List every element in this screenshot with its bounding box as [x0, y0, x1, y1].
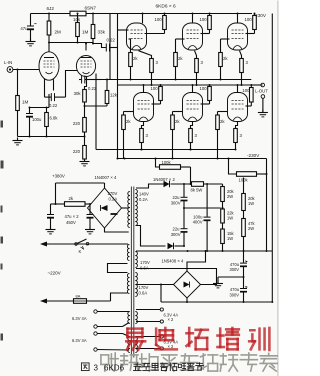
wire heater tap 3	[97, 334, 129, 337]
transformer winding 270V primary-left	[128, 192, 130, 228]
resistor 100 L-OUT	[242, 84, 253, 105]
label ~220V	[48, 271, 61, 276]
wire screen stub tube V1	[118, 29, 129, 31]
transformer winding mains upper	[127, 245, 129, 261]
wire bridge2 ac right	[136, 269, 217, 285]
wire cathode return y149	[96, 149, 236, 151]
svg-text:6SN7: 6SN7	[85, 6, 97, 11]
wire B+ top rail y13	[31, 13, 273, 15]
label 6.3V 4A lower	[164, 340, 179, 350]
wire to L-OUT jack	[251, 84, 261, 86]
wire ac left drop	[160, 285, 162, 303]
dot 220 midpoint	[84, 136, 86, 138]
wire bridge2 minus	[186, 298, 188, 303]
resistor 2M	[47, 14, 61, 43]
resistor 100k upper	[155, 158, 191, 170]
label 6.3V left lower	[72, 338, 87, 343]
wire cathode bus y107	[29, 107, 50, 109]
svg-text:140V: 140V	[139, 192, 149, 197]
capacitor 47u input filter	[20, 14, 36, 42]
wire 140V bottom tap	[136, 226, 166, 247]
svg-text:2k: 2k	[220, 119, 225, 124]
resistor 12k	[105, 79, 118, 107]
scan edge marks left	[1, 121, 4, 341]
label L-IN	[4, 60, 12, 65]
resistor 2k grid V3	[219, 39, 230, 81]
capacitor 100u 400V	[193, 184, 211, 251]
svg-text:0.22: 0.22	[107, 37, 116, 42]
svg-text:2k: 2k	[133, 56, 138, 61]
ground mid supply	[213, 277, 223, 288]
wire heater right tap 1	[136, 308, 163, 311]
svg-text:170V: 170V	[139, 285, 149, 290]
connector heater terminal 4	[94, 348, 97, 351]
label 6J2	[47, 6, 55, 11]
resistor 47k 2W	[242, 219, 256, 252]
svg-text:8k 5W: 8k 5W	[191, 187, 203, 192]
svg-text:220: 220	[73, 121, 81, 126]
watermark red text 易迪拓培训	[126, 328, 269, 350]
resistor 2k grid V4	[122, 112, 134, 159]
label 1N4007 x 4	[95, 175, 117, 180]
resistor 2k filter	[55, 196, 92, 206]
resistor 100 screen V1	[145, 13, 167, 34]
resistor 2k grid V5	[171, 112, 183, 159]
wire bridge2 ac left	[137, 284, 174, 286]
wire heater tap 2	[97, 323, 129, 327]
svg-text:3: 3	[201, 60, 204, 65]
transformer heater winding lower	[128, 337, 138, 353]
wire -230V corner drop	[266, 159, 268, 252]
resistor 220 lower	[73, 132, 86, 162]
resistor 3 cathode V3	[240, 51, 249, 86]
caption 图3 6KD6五极管接法并联功放电路	[81, 363, 203, 373]
resistor 100 screen V2	[200, 13, 212, 34]
wire input shunt drop	[17, 70, 19, 96]
capacitor 47u x2 450V left	[47, 204, 56, 230]
wire 30k-12k link y105.5	[85, 105, 108, 107]
svg-text:1M: 1M	[22, 100, 29, 105]
resistor 3 cathode V2	[195, 51, 204, 86]
resistor 100 screen V4	[151, 84, 163, 104]
label 270V 0.2A	[108, 191, 118, 201]
capacitor 100u cathode bypass	[26, 108, 42, 137]
svg-text:6.8k: 6.8k	[50, 116, 59, 121]
resistor 20k 2W	[221, 184, 235, 209]
capacitor 0.22 coupling right	[79, 76, 101, 92]
wire 6SN7 cathode lead	[85, 77, 87, 90]
wire drive bus upper y79	[101, 79, 252, 81]
fuse 8A	[74, 294, 87, 304]
svg-text:100: 100	[200, 86, 208, 91]
transformer winding 170V lower	[135, 273, 137, 297]
svg-text:1W: 1W	[248, 201, 254, 206]
svg-text:0.6A: 0.6A	[139, 291, 148, 296]
wire bridge1 ac right	[122, 207, 129, 209]
svg-text:100: 100	[151, 86, 159, 91]
svg-text:6.3V 4A: 6.3V 4A	[72, 338, 87, 343]
label L-OUT	[255, 89, 268, 94]
resistor 2k grid V2	[174, 39, 185, 81]
wire diode2 to caps	[175, 245, 186, 247]
svg-text:L-OUT: L-OUT	[255, 89, 268, 94]
capacitor 22u 300V lower	[171, 226, 188, 246]
resistor 100 screen V5	[200, 84, 212, 104]
arrow mains N	[40, 299, 47, 304]
ground 47u left	[46, 227, 56, 234]
label +230V	[252, 10, 273, 18]
wire mains jumper	[108, 264, 128, 273]
wire 6J2 plate lead	[48, 43, 50, 53]
svg-text:300V: 300V	[229, 267, 239, 272]
wire 33k to coupling cap	[92, 43, 94, 45]
wire 140V tap to diode	[136, 184, 164, 188]
wire 22u to divider	[184, 207, 221, 209]
wire L-OUT gnd drop	[262, 98, 264, 112]
label 6SN7	[85, 6, 97, 11]
diode D5 1N4007	[164, 181, 170, 187]
svg-text:~220V: ~220V	[48, 271, 61, 276]
wire 380 node drop	[55, 183, 57, 204]
svg-text:300V: 300V	[229, 292, 239, 297]
wire screen feed vertical x109.5	[109, 14, 111, 80]
label 170V 0.6A lower	[139, 285, 149, 296]
svg-text:2k: 2k	[175, 119, 180, 124]
svg-text:6.3V 4A: 6.3V 4A	[72, 316, 87, 321]
svg-text:1N4007 × 4: 1N4007 × 4	[95, 175, 117, 180]
svg-text:0.2A: 0.2A	[109, 196, 118, 201]
resistor 30k cathode upper	[74, 90, 87, 118]
ground 47u right	[85, 227, 95, 234]
tube V6 6KD6 lower	[228, 84, 248, 122]
label 6KD6 x 6	[156, 4, 176, 10]
ground under L-OUT	[258, 110, 268, 117]
wire 470u mid to ground	[218, 276, 244, 278]
svg-text:300V: 300V	[171, 232, 181, 237]
svg-text:1M: 1M	[82, 30, 89, 35]
label 170V 0.6A upper	[140, 260, 150, 271]
svg-text:100k: 100k	[162, 160, 172, 165]
resistor 33k plate load	[91, 14, 105, 44]
svg-text:33k: 33k	[98, 30, 106, 35]
dot 22u junction	[183, 207, 185, 209]
wire diode to 8k	[171, 183, 192, 185]
svg-text:8A: 8A	[76, 294, 81, 299]
svg-text:+380V: +380V	[52, 174, 65, 179]
wire heater right tap 4	[136, 347, 163, 350]
svg-text:1N5408 × 4: 1N5408 × 4	[162, 259, 184, 264]
svg-text:× 2: × 2	[168, 317, 175, 322]
svg-text:22u: 22u	[173, 226, 181, 231]
svg-text:450V: 450V	[66, 220, 76, 225]
label 140V 0.2A	[139, 192, 149, 203]
svg-text:3: 3	[246, 60, 249, 65]
wire 6J2 g3 lead	[44, 79, 46, 97]
resistor 100 screen V3	[245, 13, 257, 34]
svg-text:47u: 47u	[20, 26, 28, 31]
rectifier bridge D1-D4 1N4007	[88, 188, 122, 228]
wire to 6SN7 grid	[66, 71, 78, 98]
label -230V	[246, 151, 268, 158]
wire -230V rail y158	[117, 158, 267, 160]
svg-text:-230V: -230V	[247, 153, 260, 158]
svg-text:400V: 400V	[193, 220, 203, 225]
svg-text:2M: 2M	[55, 30, 62, 35]
watermark grey text 射频和天线设计专家	[101, 353, 277, 371]
wire plate node y42	[48, 42, 94, 44]
resistor 10k plate decoupler	[70, 11, 86, 22]
tube V5 6KD6 lower	[183, 84, 203, 122]
svg-text:2k: 2k	[178, 56, 183, 61]
label 1N5408 x 4	[162, 259, 184, 264]
svg-text:100: 100	[200, 17, 208, 22]
svg-text:3: 3	[146, 133, 149, 138]
wire heater right tap 2	[136, 320, 163, 323]
svg-text:22u: 22u	[173, 195, 181, 200]
wire mains switch line	[46, 243, 128, 246]
ground under 47u	[26, 39, 36, 46]
wire +230V right edge drop	[271, 14, 273, 303]
resistor 22k 1W	[221, 208, 235, 229]
resistor 6.8k cathode	[45, 108, 59, 137]
resistor 3 cathode V5	[189, 122, 198, 151]
diode D6 1N4007	[168, 243, 174, 249]
svg-text:100: 100	[245, 17, 253, 22]
svg-text:1W: 1W	[227, 216, 233, 221]
polarity mark bridge1	[111, 213, 118, 215]
transformer winding mains lower	[127, 274, 129, 294]
rectifier bridge D7-D10 1N5408	[174, 271, 201, 298]
wire heater right tap 3	[136, 335, 163, 338]
label 47u x 2 450V	[65, 214, 80, 225]
tube U1 6J2	[39, 52, 59, 80]
wire +380V feed	[56, 182, 105, 184]
wire 6SN7 plate lead	[85, 43, 87, 51]
arrow mains L	[40, 242, 49, 247]
capacitor 0.22 coupling upper	[94, 37, 118, 51]
svg-text:2k: 2k	[69, 196, 74, 201]
connector heater terminal 1	[94, 310, 97, 313]
wire B+ drop x117	[117, 14, 119, 159]
switch K	[75, 239, 89, 254]
resistor 2k grid V1	[129, 39, 139, 81]
tube V1 6KD6 upper	[127, 13, 147, 51]
svg-text:L-IN: L-IN	[4, 60, 12, 65]
svg-text:6KD6: 6KD6	[104, 364, 125, 373]
capacitor 470u 300V upper	[229, 251, 247, 288]
resistor 3 cathode V4	[140, 122, 149, 151]
svg-text:3: 3	[94, 364, 99, 373]
wire mains fuse line	[46, 293, 128, 301]
dot rail 1M	[77, 13, 95, 15]
svg-text:6J2: 6J2	[47, 6, 55, 11]
svg-text:220: 220	[73, 149, 81, 154]
transformer T1 core	[131, 187, 133, 358]
svg-text:3: 3	[195, 133, 198, 138]
wire splitter cathode drop	[95, 74, 97, 150]
svg-text:2k: 2k	[126, 119, 131, 124]
connector L-OUT gnd	[261, 95, 265, 99]
wire bridge1 ac bottom	[105, 228, 129, 232]
capacitor 22u 300V upper	[171, 184, 188, 229]
svg-text:270V: 270V	[108, 191, 118, 196]
resistor 15k 1W	[221, 229, 235, 251]
label 6.3V left upper	[72, 316, 87, 321]
wire cathode lead tube1	[48, 94, 50, 108]
resistor 100k lower	[228, 158, 268, 183]
label 6.3V 4A upper	[164, 313, 179, 323]
svg-text:3: 3	[240, 133, 243, 138]
label +380V	[52, 174, 65, 179]
svg-text:1W: 1W	[227, 236, 233, 241]
svg-text:300V: 300V	[171, 201, 181, 206]
svg-text:0.2A: 0.2A	[139, 197, 148, 202]
dot rail 2M	[48, 13, 50, 15]
wire bottom rail y301	[161, 301, 273, 303]
svg-text:3: 3	[156, 60, 159, 65]
wire ground bus y136	[18, 136, 85, 138]
resistor 20k 1W	[242, 178, 256, 219]
wire drive bus lower y84.5	[118, 84, 263, 86]
wire screen V6	[246, 105, 252, 107]
ground input bus	[13, 138, 23, 145]
svg-text:0.22: 0.22	[49, 103, 58, 108]
svg-text:170V: 170V	[140, 260, 150, 265]
connector heater terminal 2	[94, 325, 97, 328]
svg-text:2W: 2W	[227, 194, 233, 199]
capacitor 470u 300V lower	[229, 286, 247, 302]
resistor 8k 5W	[191, 182, 223, 193]
svg-text:2W: 2W	[248, 226, 254, 231]
svg-text:100: 100	[242, 88, 250, 93]
tube V3 6KD6 upper	[228, 13, 248, 51]
transformer winding 170V upper	[135, 252, 137, 268]
resistor 1M grid leak	[16, 96, 29, 137]
svg-text:10k: 10k	[73, 17, 81, 22]
capacitor 47u x2 450V right	[87, 204, 94, 230]
wire heater tap 4	[97, 349, 129, 352]
dot 470u midpoint	[243, 276, 245, 278]
resistor 3 cathode V6	[234, 122, 243, 151]
svg-text:2k: 2k	[223, 56, 228, 61]
tube V4 6KD6 lower	[134, 84, 154, 122]
svg-text:12k: 12k	[110, 93, 118, 98]
wire 100k to 8k node	[190, 167, 192, 184]
scan edge line right	[277, 1, 279, 376]
transformer heater winding upper	[128, 312, 138, 324]
wire 6J2 aux lead	[53, 79, 55, 90]
svg-text:100u: 100u	[193, 214, 203, 219]
svg-text:30k: 30k	[74, 91, 82, 96]
ground under 220	[80, 159, 90, 166]
wire input to grid	[13, 69, 40, 71]
resistor 1M driver	[76, 14, 89, 43]
label 1N4007 x 2	[153, 177, 175, 182]
resistor 220 upper	[73, 118, 86, 133]
connector heater terminal 3	[94, 332, 97, 335]
svg-text:K: K	[79, 249, 82, 254]
tube V2 6KD6 upper	[183, 13, 203, 51]
svg-text:100u: 100u	[32, 117, 42, 122]
wire rail y250.5	[136, 250, 272, 252]
wire heater tap 1	[97, 311, 129, 313]
transformer winding 140V right	[135, 190, 137, 226]
resistor 3 cathode V1	[139, 51, 159, 86]
tube U2 6SN7	[76, 56, 95, 77]
wire bridge1 plus	[104, 183, 106, 188]
svg-text:47u × 2: 47u × 2	[65, 214, 80, 219]
svg-text:100: 100	[155, 17, 163, 22]
wire bridge2 plus	[187, 250, 207, 271]
connector input jack L-IN	[7, 67, 13, 73]
connector L-OUT hot	[261, 83, 265, 87]
capacitor 0.22 coupling lower-left	[45, 93, 66, 108]
resistor 2k grid V6	[216, 112, 228, 159]
svg-text:6KD6 × 6: 6KD6 × 6	[156, 4, 176, 10]
